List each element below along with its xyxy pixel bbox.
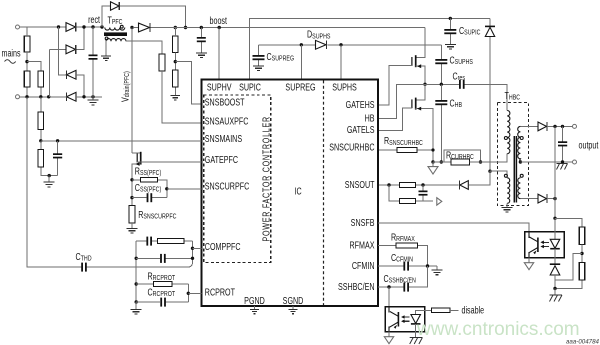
- svg-text:SNSCURHBC: SNSCURHBC: [329, 141, 374, 152]
- capacitor CSUPREG: [258, 45, 260, 66]
- svg-text:SGND: SGND: [283, 295, 304, 306]
- wire disable: [450, 309, 459, 311]
- led arrows disable: [404, 317, 409, 321]
- svg-text:boost: boost: [210, 15, 228, 26]
- wire SNSOUT pin: [378, 184, 459, 186]
- transistor HS MOSFET: [415, 55, 417, 67]
- wire mains bottom: [20, 96, 66, 98]
- wire RCURHBC row: [433, 161, 507, 163]
- svg-text:CSSHBC/EN: CSSHBC/EN: [384, 273, 417, 285]
- wire SNSMAINS pin: [41, 140, 202, 142]
- svg-text:SUPREG: SUPREG: [285, 81, 315, 92]
- node cap tap: [56, 139, 59, 142]
- node rect cap top: [91, 25, 94, 28]
- phase dot W2: [504, 174, 507, 177]
- wire W2 to ground: [506, 203, 508, 207]
- svg-text:RFMAX: RFMAX: [350, 239, 375, 250]
- ground bridge: [88, 100, 99, 105]
- core THBC: [514, 136, 516, 203]
- ground arrow halfbridge: [432, 162, 434, 167]
- svg-text:GATEPFC: GATEPFC: [205, 154, 238, 165]
- led disable: [416, 310, 432, 314]
- ground RSNSCURPFC: [127, 228, 138, 233]
- winding TPFC aux: [106, 39, 126, 42]
- wire W1 bottom to RCURHBC row: [470, 154, 508, 162]
- node comp left lower: [135, 257, 138, 260]
- svg-text:HB: HB: [365, 112, 375, 123]
- phase dot primary: [120, 25, 123, 28]
- svg-text:RSNSCURPFC: RSNSCURPFC: [138, 209, 177, 221]
- svg-text:CTHD: CTHD: [76, 251, 92, 263]
- wire lower out: [547, 198, 555, 200]
- svg-text:RRFMAX: RRFMAX: [391, 231, 415, 243]
- wire GATELS: [378, 108, 412, 131]
- svg-text:RSNSCURHBC: RSNSCURHBC: [384, 135, 423, 147]
- node COMPPFC pin tap: [191, 247, 194, 250]
- phase dot W3: [520, 137, 523, 140]
- node CSS tap: [130, 196, 133, 199]
- node divider mid: [580, 252, 583, 255]
- phase dot W1: [504, 137, 507, 140]
- ground rcprot: [135, 302, 137, 309]
- wire output bus down: [554, 126, 556, 218]
- svg-text:disable: disable: [462, 304, 485, 315]
- diode bridge D3: [67, 70, 77, 79]
- resistor RRFMAX: [378, 246, 428, 267]
- node mains bottom junctions: [25, 95, 28, 98]
- IC dashed separator: [323, 81, 325, 306]
- wire cap vertical: [92, 27, 94, 100]
- svg-text:SNSCURPFC: SNSCURPFC: [205, 180, 249, 191]
- svg-text:SNSBOOST: SNSBOOST: [205, 96, 245, 107]
- wire loop RCURHBC: [444, 150, 481, 162]
- wire to divider: [555, 218, 582, 227]
- resistor RSS(PFC): [132, 180, 167, 198]
- svg-text:www.cntronics.com: www.cntronics.com: [416, 319, 580, 340]
- node lower joins bus: [553, 197, 556, 200]
- diode boost: [134, 27, 175, 29]
- resistor input divider R2: [24, 71, 30, 87]
- node row1 D2 riser: [82, 25, 85, 28]
- resistor aux divider: [159, 54, 165, 71]
- node row4 joins: [82, 95, 85, 98]
- ground PGND: [254, 306, 256, 309]
- node boost divider top: [174, 26, 177, 29]
- resistor disable: [432, 308, 451, 313]
- resistor SNSOUT lower: [400, 199, 416, 204]
- chassis ground output: [557, 164, 568, 170]
- svg-text:mains: mains: [2, 47, 21, 58]
- ground rfmax: [436, 266, 438, 270]
- wire row2: [49, 27, 84, 49]
- resistor divider lower: [579, 263, 585, 281]
- node SUPHS riser: [339, 43, 342, 46]
- wire left node vertical: [135, 241, 137, 302]
- capacitor boost bulk: [200, 28, 202, 53]
- svg-text:PGND: PGND: [244, 295, 265, 306]
- wire to SNSAUXPFC pin: [162, 71, 201, 123]
- resistor mains sense lower: [41, 141, 58, 176]
- node SUPREG riser: [300, 43, 303, 46]
- core TPFC: [104, 32, 127, 36]
- terminal output minus: [573, 160, 577, 164]
- diode output lower: [538, 194, 547, 203]
- chassis ground feedback: [554, 289, 556, 296]
- wire SSHBC/EN: [378, 266, 428, 287]
- svg-text:CSUPIC: CSUPIC: [459, 25, 481, 37]
- wire drain vertical: [131, 28, 133, 154]
- wire RC branch: [389, 185, 433, 201]
- svg-text:CSUPREG: CSUPREG: [267, 51, 295, 63]
- resistor boost divider lower: [173, 70, 179, 87]
- wire HB rail to Cres: [425, 84, 507, 110]
- capacitor comp series: [136, 240, 192, 242]
- diode bridge D2: [66, 45, 76, 54]
- wire SUPHV riser: [218, 28, 220, 80]
- svg-text:SNSMAINS: SNSMAINS: [205, 133, 243, 144]
- wire comp right vertical: [192, 241, 194, 258]
- node mains top at bridge: [57, 25, 60, 28]
- wire divider mid to SNSBOOST: [175, 62, 201, 104]
- node SNSCURPFC tap: [165, 187, 168, 190]
- svg-text:Vdrain(PFC): Vdrain(PFC): [119, 71, 131, 102]
- svg-text:THBC: THBC: [505, 90, 521, 102]
- wire W4 to lower diode: [520, 198, 537, 200]
- resistor RSNSCURPFC: [129, 206, 135, 224]
- winding THBC primary upper W1: [507, 111, 510, 154]
- diode DSUPHS: [316, 40, 327, 49]
- ground boost cap: [196, 53, 207, 58]
- svg-text:rect: rect: [88, 14, 100, 25]
- resistor comp series: [158, 239, 185, 244]
- wire row4 segment: [66, 96, 102, 98]
- wire row3 right: [76, 75, 84, 97]
- svg-text:TPFC: TPFC: [108, 14, 123, 26]
- wire mains top: [20, 26, 103, 28]
- diode bridge D1: [66, 23, 76, 32]
- svg-text:RRCPROT: RRCPROT: [148, 270, 176, 282]
- resistor input parallel R3: [38, 71, 44, 87]
- resistor boost divider upper: [173, 36, 179, 53]
- resistor input divider R1: [24, 36, 30, 52]
- wire SUPIC riser and top rail: [249, 18, 490, 79]
- svg-text:GATEHS: GATEHS: [346, 99, 375, 110]
- svg-text:output: output: [579, 140, 599, 151]
- wire COMPPFC pin: [193, 247, 202, 249]
- node zener foot: [553, 287, 556, 290]
- capacitor comp parallel: [136, 257, 192, 259]
- node drain top: [130, 26, 133, 29]
- wire bypass branch: [102, 6, 186, 27]
- wire aux left to ground: [105, 41, 107, 55]
- ground SGND: [292, 306, 294, 309]
- wire W2 feed: [490, 171, 507, 178]
- capacitor SNSOUT: [422, 185, 424, 201]
- resistor RSNSCURHBC: [397, 148, 417, 153]
- capacitor bridge filter: [89, 55, 98, 57]
- wire SUPREG riser: [300, 45, 302, 80]
- wire GATEHS: [378, 66, 412, 106]
- dashed box THBC: [498, 103, 529, 206]
- node RSS tap: [130, 178, 133, 181]
- node SUPHV riser: [218, 26, 221, 29]
- wire divider mid to zener foot: [555, 254, 582, 281]
- svg-text:SUPHS: SUPHS: [332, 81, 357, 92]
- node RCPROT pin tap: [187, 292, 190, 295]
- capacitor CHB: [440, 84, 442, 162]
- ground opto feedback: [528, 258, 530, 264]
- resistor SNSOUT series: [400, 183, 416, 188]
- resistor mains sense upper: [40, 97, 42, 141]
- node feedback top: [553, 217, 556, 220]
- svg-text:IC: IC: [295, 185, 302, 196]
- svg-text:SUPIC: SUPIC: [239, 81, 261, 92]
- svg-text:RSS(PFC): RSS(PFC): [135, 165, 161, 177]
- svg-text:SNSAUXPFC: SNSAUXPFC: [205, 115, 249, 126]
- capacitor CSUPIC: [449, 18, 451, 44]
- resistor RCURHBC: [451, 159, 470, 165]
- ground mains sense: [48, 176, 50, 182]
- svg-text:SNSOUT: SNSOUT: [345, 179, 375, 190]
- svg-text:SUPHV: SUPHV: [207, 81, 232, 92]
- node bypass lands: [184, 26, 187, 29]
- terminal mains N: [16, 95, 20, 99]
- node HS source HB: [423, 83, 426, 86]
- ground opto disable: [388, 332, 390, 338]
- wire CTHD riser: [27, 97, 193, 267]
- node rcprot left top: [135, 282, 138, 285]
- wire supreg row: [259, 44, 442, 46]
- terminal output plus: [573, 124, 577, 128]
- svg-text:SSHBC/EN: SSHBC/EN: [338, 281, 375, 292]
- ac symbol: [5, 60, 16, 64]
- capacitor mains sense: [57, 141, 59, 176]
- node RCURHBC right: [479, 160, 482, 163]
- node boost divider mid: [174, 60, 177, 63]
- diode output upper: [538, 122, 547, 131]
- wire PFC source: [132, 164, 141, 206]
- resistor RRCPROT: [136, 283, 188, 285]
- winding THBC primary lower W2: [507, 178, 510, 204]
- capacitor CCFMIN: [378, 265, 437, 267]
- node rect: [100, 25, 103, 28]
- svg-text:POWER FACTOR CONTROLLER: POWER FACTOR CONTROLLER: [260, 116, 271, 241]
- capacitor output: [562, 126, 564, 162]
- wire: [26, 27, 28, 97]
- wire bridge vertical AC2 row2 to row4: [48, 49, 50, 96]
- wire rcprot right vertical: [187, 284, 189, 302]
- wire aux right to divider: [126, 41, 162, 54]
- wire SNSCURPFC pin: [167, 188, 202, 190]
- node opto tap: [387, 285, 390, 288]
- svg-text:GATELS: GATELS: [347, 124, 375, 135]
- node divider mid: [25, 60, 28, 63]
- wire upper out: [547, 125, 573, 127]
- wire: [555, 245, 582, 289]
- wire center tap out: [520, 161, 572, 163]
- svg-text:CRCPROT: CRCPROT: [148, 286, 176, 298]
- node CSUPIC: [449, 17, 452, 20]
- wire SUPHS riser: [340, 45, 342, 80]
- svg-text:SNSFB: SNSFB: [351, 217, 375, 228]
- capacitor Cres: [459, 80, 461, 89]
- wire SNSCURHBC: [378, 150, 433, 162]
- wire SNSFB: [378, 223, 529, 232]
- wire to ground: [131, 223, 133, 228]
- transistor PFC MOSFET: [132, 152, 141, 154]
- winding THBC secondary lower W4: [518, 178, 521, 199]
- node CHB top: [440, 83, 443, 86]
- node divider foot: [48, 174, 51, 177]
- capacitor CRCPROT: [136, 301, 188, 303]
- node out plus: [553, 125, 556, 128]
- phototransistor feedback: [537, 238, 539, 253]
- capacitor CTHD: [81, 263, 83, 272]
- wire boost to HS drain: [417, 28, 426, 58]
- diode bridge D4: [67, 92, 77, 101]
- wire zener line to SNSOUT diode row: [469, 171, 490, 185]
- wire bridge vertical AC1 to row3: [59, 27, 66, 75]
- node cap bottom: [561, 160, 564, 163]
- ground CSUPREG: [253, 66, 264, 71]
- wire to parallel R: [27, 62, 41, 97]
- winding TPFC primary: [105, 28, 125, 31]
- ground boost divider: [171, 95, 181, 100]
- winding THBC secondary upper W3: [520, 125, 537, 127]
- optocoupler feedback box: [525, 232, 565, 258]
- ground THBC: [502, 207, 513, 212]
- ground aux: [101, 56, 111, 61]
- capacitor CSS(PFC): [132, 197, 167, 199]
- terminal mains L: [16, 25, 20, 29]
- node SNSOUT right: [421, 183, 424, 186]
- node zener line joins primary W2: [488, 170, 491, 173]
- node boost cap: [200, 26, 203, 29]
- IC outline: [201, 80, 378, 307]
- node CHB bottom: [440, 160, 443, 163]
- svg-text:aaa-004784: aaa-004784: [566, 339, 600, 345]
- svg-text:RCPROT: RCPROT: [205, 286, 236, 297]
- diode bypass: [111, 2, 120, 10]
- svg-text:CSUPHS: CSUPHS: [450, 54, 473, 66]
- transistor LS MOSFET: [417, 84, 426, 100]
- ground arrow SNSOUT: [437, 198, 442, 205]
- phase dot aux: [105, 37, 108, 40]
- svg-text:CFMIN: CFMIN: [352, 260, 375, 271]
- diode zener DSUPIC: [489, 18, 491, 171]
- diode zener feedback: [550, 263, 560, 265]
- svg-text:CHB: CHB: [450, 97, 463, 109]
- capacitor CSUPHS: [440, 45, 442, 85]
- chassis ground disable: [415, 324, 417, 338]
- resistor divider upper: [579, 227, 585, 245]
- led arrows feedback: [543, 242, 548, 246]
- capacitor CSSHBC/EN: [403, 283, 405, 292]
- wire GATEPFC: [137, 161, 201, 163]
- ground CSUPIC: [445, 44, 456, 49]
- phase dot W4: [520, 174, 523, 177]
- phototransistor disable: [397, 312, 399, 327]
- node center tap: [519, 160, 522, 163]
- wire boost rail: [152, 27, 425, 29]
- svg-text:COMPPFC: COMPPFC: [205, 241, 241, 252]
- svg-text:CSS(PFC): CSS(PFC): [135, 182, 161, 194]
- node rcprot left bottom: [135, 300, 138, 303]
- node SNSCURHBC joins source: [431, 148, 434, 151]
- optocoupler disable box: [385, 307, 425, 332]
- node CFMIN join: [426, 264, 429, 267]
- node SNSMAINS: [39, 139, 42, 142]
- wire opto riser: [388, 287, 390, 307]
- wire RCPROT pin: [188, 292, 201, 294]
- wire HB pin riser: [378, 84, 425, 118]
- led feedback: [554, 218, 556, 239]
- node sense to RCURHBC row: [431, 160, 434, 163]
- svg-text:CCFMIN: CCFMIN: [391, 252, 413, 264]
- node SNSOUT left: [387, 183, 390, 186]
- svg-text:DSUPHS: DSUPHS: [307, 29, 330, 41]
- IC dashed PFC box: [204, 95, 271, 263]
- diode SNSOUT: [460, 181, 469, 190]
